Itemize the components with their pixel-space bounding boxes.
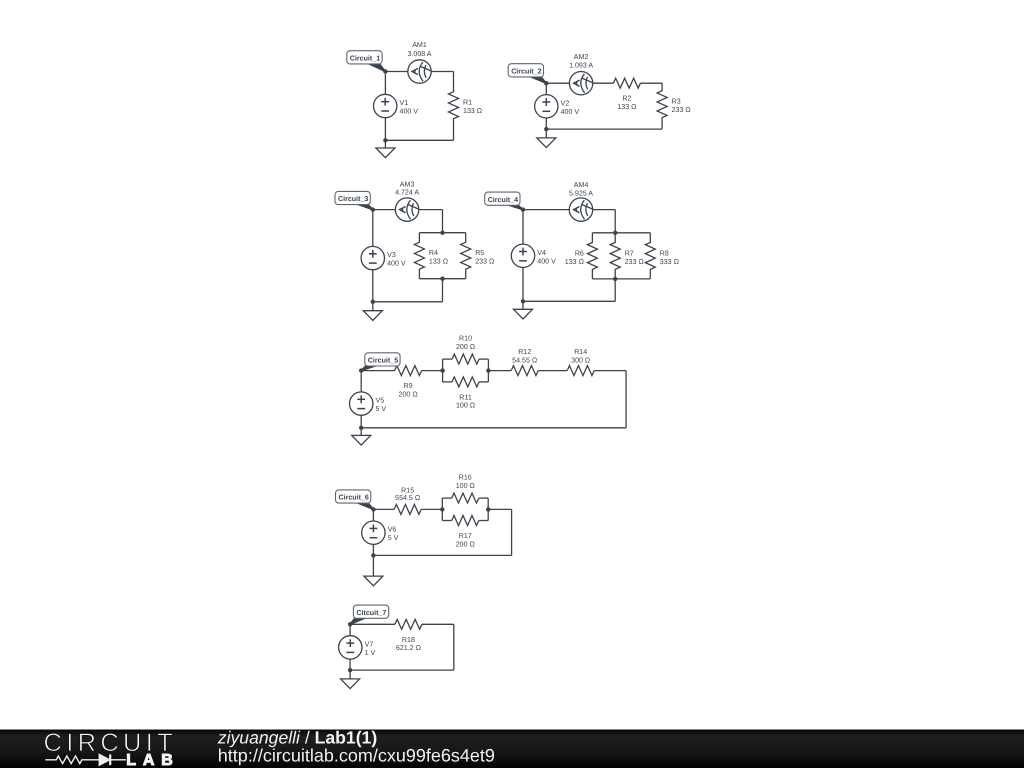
svg-text:Circuit_6: Circuit_6: [339, 494, 369, 502]
wire: [479, 381, 488, 383]
svg-text:R11: R11: [459, 393, 472, 401]
ground: [352, 428, 371, 445]
wire: [361, 427, 626, 429]
circuit 1 group: [347, 41, 482, 158]
svg-text:200 Ω: 200 Ω: [456, 343, 475, 351]
wire: [360, 371, 362, 428]
resistor R5: [461, 233, 495, 279]
wire: [479, 497, 488, 499]
svg-text:554.5 Ω: 554.5 Ω: [395, 494, 420, 502]
wire: [442, 497, 451, 499]
svg-text:400 V: 400 V: [387, 260, 406, 268]
svg-text:3.008 A: 3.008 A: [407, 50, 431, 58]
svg-text:54.55 Ω: 54.55 Ω: [512, 356, 537, 364]
node label Circuit_5: [361, 353, 400, 371]
svg-text:R14: R14: [574, 348, 587, 356]
ammeter AM4: [569, 181, 593, 221]
ground: [364, 555, 383, 585]
wire: [625, 371, 627, 428]
wire: [385, 139, 453, 141]
voltage source V4: [511, 244, 556, 267]
wire: [441, 498, 443, 520]
svg-text:400 V: 400 V: [561, 108, 580, 116]
resistor R4: [414, 233, 448, 279]
svg-text:V3: V3: [387, 251, 396, 259]
wire: [479, 520, 488, 522]
node Circuit_4: [521, 207, 525, 211]
svg-text:R3: R3: [672, 98, 681, 106]
resistor R14: [567, 348, 594, 376]
svg-text:AM3: AM3: [400, 180, 415, 188]
wire: [487, 498, 489, 520]
ammeter AM2: [569, 53, 593, 95]
svg-text:5.925 A: 5.925 A: [569, 190, 593, 198]
resistor R10: [452, 335, 479, 365]
svg-text:Circuit_5: Circuit_5: [368, 357, 398, 365]
node: [440, 277, 444, 281]
resistor R11: [452, 377, 479, 410]
wire: [350, 669, 454, 671]
wire: [361, 370, 394, 372]
node: [440, 231, 444, 235]
resistor R6: [565, 233, 598, 279]
wire: [384, 72, 386, 141]
wire: [442, 359, 444, 382]
svg-text:233 Ω: 233 Ω: [475, 258, 494, 266]
svg-text:R1: R1: [463, 99, 472, 107]
wire: [594, 370, 626, 372]
svg-text:4.724 A: 4.724 A: [395, 189, 419, 197]
svg-text:R17: R17: [459, 532, 472, 540]
resistor R12: [511, 348, 538, 376]
wire: [546, 82, 613, 84]
svg-text:ziyuangelli / Lab1(1): ziyuangelli / Lab1(1): [217, 728, 377, 748]
svg-text:V1: V1: [400, 99, 409, 107]
svg-text:AM4: AM4: [574, 181, 589, 189]
resistor R17: [452, 516, 479, 549]
svg-text:R2: R2: [622, 95, 631, 103]
node: [544, 127, 548, 131]
wire: [545, 83, 547, 129]
svg-text:621.2 Ω: 621.2 Ω: [396, 644, 421, 652]
circuit 2 group: [508, 53, 691, 148]
wire: [422, 370, 443, 372]
svg-text:133 Ω: 133 Ω: [617, 103, 636, 111]
wire: [373, 554, 511, 556]
circuit 4 group: [485, 181, 679, 319]
circuit 5 group: [350, 335, 627, 446]
svg-text:R18: R18: [402, 636, 415, 644]
node: [486, 368, 490, 372]
footer bar: [0, 730, 1024, 768]
svg-text:400 V: 400 V: [400, 108, 419, 116]
node: [371, 300, 375, 304]
ground: [363, 302, 382, 321]
circuit 3 group: [335, 180, 494, 320]
wire: [372, 210, 374, 302]
wire: [442, 520, 451, 522]
node Circuit_3: [371, 207, 375, 211]
wire: [479, 358, 488, 360]
wire: [443, 358, 452, 360]
svg-text:AM1: AM1: [412, 41, 427, 49]
svg-text:400 V: 400 V: [537, 257, 556, 265]
svg-text:R8: R8: [660, 249, 669, 257]
wire: [453, 624, 455, 670]
wire: [419, 232, 465, 234]
svg-text:R5: R5: [475, 249, 484, 257]
svg-text:5 V: 5 V: [376, 405, 387, 413]
node Circuit_1: [383, 69, 387, 73]
wire: [511, 509, 513, 555]
resistor R2: [613, 78, 640, 111]
resistor R18: [395, 619, 422, 652]
svg-text:R7: R7: [625, 249, 634, 257]
node label Circuit_6: [336, 490, 374, 510]
svg-text:233 Ω: 233 Ω: [672, 106, 691, 114]
svg-text:V4: V4: [537, 249, 546, 257]
node label Circuit_2: [508, 64, 546, 83]
svg-text:1 V: 1 V: [365, 649, 376, 657]
node label Circuit_3: [335, 191, 373, 209]
voltage source V5: [350, 392, 387, 415]
wire: [373, 209, 443, 211]
wire: [350, 623, 395, 625]
node: [486, 507, 490, 511]
ground: [341, 670, 360, 689]
svg-text:100 Ω: 100 Ω: [456, 402, 475, 410]
wire: [442, 279, 444, 302]
svg-text:233 Ω: 233 Ω: [625, 258, 644, 266]
wire: [614, 210, 616, 233]
wire: [421, 508, 442, 510]
wire: [592, 278, 650, 280]
circuit 7 group: [339, 605, 454, 689]
wire: [419, 278, 465, 280]
voltage source V7: [339, 636, 376, 659]
node: [371, 553, 375, 557]
svg-text:200 Ω: 200 Ω: [399, 390, 418, 398]
wire: [442, 210, 444, 233]
node: [359, 426, 363, 430]
node label Circuit_4: [485, 192, 523, 210]
node: [348, 668, 352, 672]
resistor R8: [645, 233, 679, 279]
svg-text:Circuit_4: Circuit_4: [488, 196, 518, 204]
resistor R3: [657, 83, 691, 129]
wire: [488, 370, 511, 372]
wire: [546, 128, 662, 130]
svg-text:133 Ω: 133 Ω: [565, 258, 584, 266]
svg-text:AM2: AM2: [574, 53, 589, 61]
svg-text:200 Ω: 200 Ω: [456, 540, 475, 548]
resistor R9: [395, 366, 422, 399]
ammeter AM1: [407, 41, 431, 83]
svg-text:300 Ω: 300 Ω: [571, 356, 590, 364]
node Circuit_2: [544, 81, 548, 85]
svg-text:5 V: 5 V: [388, 534, 399, 542]
wire: [443, 381, 452, 383]
svg-text:333 Ω: 333 Ω: [660, 258, 679, 266]
svg-text:100 Ω: 100 Ω: [456, 482, 475, 490]
wire: [349, 624, 351, 670]
wire: [488, 508, 511, 510]
svg-text:R12: R12: [518, 348, 531, 356]
ground: [537, 129, 556, 148]
svg-text:V6: V6: [388, 526, 397, 534]
svg-text:Circuit_1: Circuit_1: [350, 54, 380, 62]
resistor R16: [452, 474, 479, 504]
node Citcuit_7: [348, 622, 352, 626]
node: [613, 277, 617, 281]
node: [383, 138, 387, 142]
node Circuit_6: [371, 507, 375, 511]
svg-text:R9: R9: [404, 382, 413, 390]
wire: [523, 209, 615, 211]
wire: [640, 82, 662, 84]
svg-text:http://circuitlab.com/cxu99fe6: http://circuitlab.com/cxu99fe6s4et9: [218, 746, 495, 766]
wire: [385, 71, 453, 73]
CircuitLab logo resistor-diode glyph: [45, 754, 126, 765]
node: [440, 507, 444, 511]
wire: [538, 370, 567, 372]
svg-text:133 Ω: 133 Ω: [429, 258, 448, 266]
node label Circuit_1: [347, 51, 386, 72]
svg-text:133 Ω: 133 Ω: [463, 107, 482, 115]
wire: [422, 623, 454, 625]
node: [613, 231, 617, 235]
svg-text:LAB: LAB: [126, 752, 179, 768]
wire: [614, 279, 616, 301]
wire: [373, 301, 443, 303]
wire: [522, 210, 524, 302]
node: [521, 299, 525, 303]
ground: [376, 140, 395, 157]
svg-text:1.093 A: 1.093 A: [569, 62, 593, 70]
node label Citcuit_7: [350, 605, 389, 624]
wire: [523, 300, 615, 302]
svg-text:R16: R16: [459, 474, 472, 482]
svg-text:V2: V2: [561, 99, 570, 107]
svg-text:R15: R15: [401, 486, 414, 494]
ammeter AM3: [395, 180, 419, 221]
voltage source V3: [361, 246, 406, 269]
svg-text:R4: R4: [429, 249, 438, 257]
voltage source V1: [374, 94, 419, 117]
resistor R15: [394, 486, 421, 514]
wire: [373, 508, 394, 510]
circuit 6 group: [336, 474, 512, 586]
wire: [487, 359, 489, 382]
resistor R7: [610, 233, 644, 279]
svg-text:R6: R6: [575, 249, 584, 257]
voltage source V2: [535, 95, 580, 118]
voltage source V6: [362, 521, 399, 544]
wire: [592, 232, 650, 234]
ground: [514, 301, 533, 319]
svg-text:R10: R10: [459, 335, 472, 343]
svg-text:Citcuit_7: Citcuit_7: [356, 609, 386, 617]
svg-text:Circuit_2: Circuit_2: [511, 67, 541, 75]
node: [440, 368, 444, 372]
wire: [372, 509, 374, 555]
svg-text:Circuit_3: Circuit_3: [338, 195, 368, 203]
svg-text:V5: V5: [376, 397, 385, 405]
svg-text:V7: V7: [365, 640, 374, 648]
node Circuit_5: [359, 368, 363, 372]
resistor R1: [449, 72, 483, 141]
